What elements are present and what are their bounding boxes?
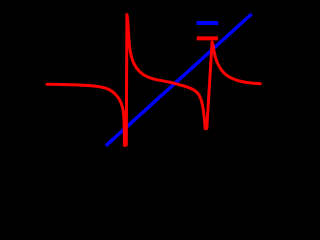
legend sample: blue dash	[197, 21, 219, 25]
legend sample: red dash	[197, 36, 218, 40]
blue line (linear function)	[107, 15, 251, 145]
red curve (function with two vertical asymptotes)	[47, 15, 260, 146]
